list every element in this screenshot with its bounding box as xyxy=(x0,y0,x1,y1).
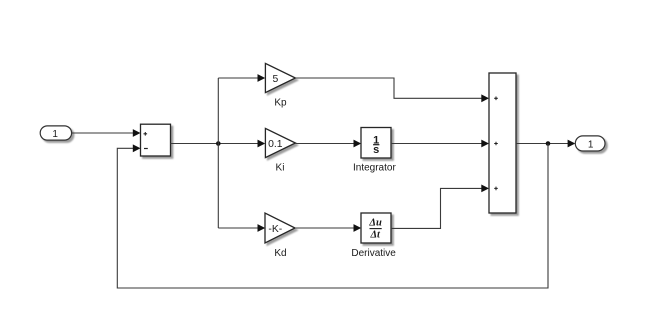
svg-text:Δt: Δt xyxy=(369,229,381,240)
gain Kp (triangle, value 5) xyxy=(265,63,295,108)
wire: Integrator output to Add input 2 xyxy=(391,140,489,148)
wire: input port to sum block + input xyxy=(72,129,141,137)
svg-text:Ki: Ki xyxy=(276,162,285,173)
wire: feedback from junction to sum block minus input xyxy=(117,144,548,289)
svg-text:Kd: Kd xyxy=(274,248,286,259)
add block (sum of three, + + +) xyxy=(489,73,516,213)
junction node before output port xyxy=(546,141,551,146)
wire: branch to Kd gain input xyxy=(218,224,265,232)
output port 1 (oval "1") xyxy=(575,136,605,151)
gain Kd (triangle, value -K-) xyxy=(265,213,295,259)
svg-text:1: 1 xyxy=(588,139,594,150)
svg-text:Kp: Kp xyxy=(274,97,287,108)
svg-text:1: 1 xyxy=(52,129,58,140)
gain Ki (triangle, value 0.1) xyxy=(265,128,295,173)
wire: branch to Kp gain input xyxy=(218,74,265,82)
wire: vertical branch to Kp and Kd rows xyxy=(217,78,219,228)
sum block (subtract, + / -) xyxy=(141,124,171,156)
wire: Derivative output to Add input 3 xyxy=(391,185,489,229)
svg-text:5: 5 xyxy=(273,74,279,85)
svg-text:Integrator: Integrator xyxy=(353,163,396,174)
wire: Kp output to Add input 1 xyxy=(295,78,489,102)
svg-text:s: s xyxy=(373,144,379,156)
wire: Ki output to Integrator xyxy=(295,140,361,148)
wire: Kd output to Derivative xyxy=(295,224,361,232)
junction node after sum xyxy=(216,141,221,146)
wire: Add output to output port (through junction) xyxy=(516,140,575,148)
integrator block (1/s) xyxy=(353,128,396,174)
wire: sum output to Ki gain (through junction) xyxy=(171,140,266,148)
svg-text:-K-: -K- xyxy=(268,224,282,235)
input port 1 (oval "1") xyxy=(40,126,71,140)
derivative block (du/dt) xyxy=(351,213,396,259)
svg-text:0.1: 0.1 xyxy=(268,139,283,150)
svg-text:Derivative: Derivative xyxy=(351,248,396,259)
svg-text:Δu: Δu xyxy=(368,218,382,229)
